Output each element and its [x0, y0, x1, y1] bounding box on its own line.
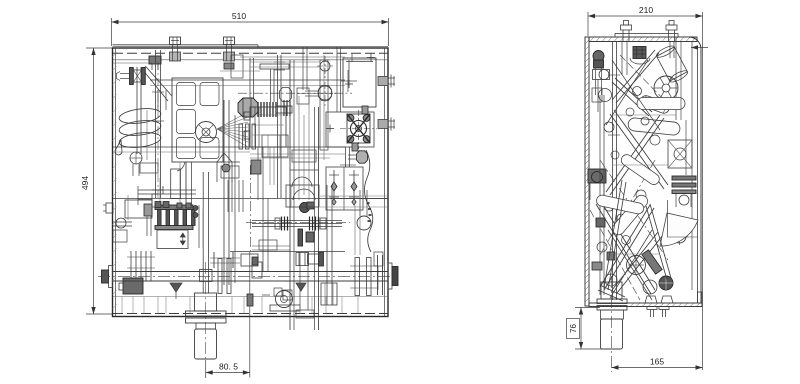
angled cylinder top-right: [655, 44, 689, 84]
tie horizontals right view: [613, 114, 677, 116]
dimension 80.5 bottom: [205, 360, 207, 378]
right comb dark: [672, 176, 696, 180]
right lower pivot dark: [659, 276, 673, 290]
left plate centerline: [157, 62, 159, 200]
big X lower B: [600, 205, 650, 287]
small circle: [633, 87, 642, 96]
shaft left end cap: [102, 270, 109, 283]
arm lower: [612, 232, 658, 290]
mid machinery cluster right of block: [249, 58, 251, 100]
horizontal bolt cluster dark washers: [283, 100, 285, 116]
svg-text:76: 76: [569, 324, 578, 333]
left rails lower: [113, 221, 132, 223]
top mounting plate side: [615, 34, 678, 38]
diagonal brace A: [615, 78, 652, 112]
vertical rods cluster left: [130, 251, 132, 281]
top dark nut left: [149, 56, 161, 64]
side cylinder block: [601, 310, 624, 319]
hex vertical dash: [324, 82, 326, 106]
terminal block: [155, 205, 193, 210]
spoked wheel: [654, 76, 678, 100]
arm to block: [145, 66, 172, 96]
vertical pair right of terminal: [198, 205, 200, 248]
vertical plate mid-left: [171, 169, 181, 199]
frame rail mid: [113, 146, 345, 148]
washer bars right lower: [377, 255, 379, 295]
cylinder centerline left view: [205, 262, 207, 362]
bottom rail ticks: [121, 297, 123, 314]
frame rail upper: [150, 79, 345, 81]
dimension 510 top: [111, 18, 113, 46]
mast pivot dark circle: [300, 203, 310, 213]
link bar 2: [628, 117, 681, 135]
side cylinder cap: [601, 282, 622, 299]
lower mid frame verticals: [262, 198, 264, 271]
diagonal dashed: [620, 55, 672, 108]
bottom flange plate: [589, 303, 702, 307]
corrugated washer stack: [257, 102, 259, 117]
rod washers mid: [213, 252, 215, 268]
vertical plate right of mast: [320, 60, 328, 150]
pivot ellipse bottom: [643, 280, 657, 294]
left tall plate: [155, 50, 157, 198]
right top leader: [691, 47, 708, 49]
dash centerline right: [297, 93, 336, 95]
svg-text:80. 5: 80. 5: [219, 362, 238, 372]
diagonal brace B: [612, 50, 655, 100]
left bracket: [593, 70, 610, 80]
dark nut top-center: [633, 47, 646, 59]
mast rails: [252, 220, 342, 222]
right columns under flange: [345, 147, 347, 167]
bolt below spring: [130, 152, 142, 164]
dark latch block: [123, 278, 143, 294]
extra links mid: [619, 152, 661, 186]
small dark block: [251, 160, 261, 174]
big dark hex bolt: [238, 98, 258, 117]
lower mid box: [286, 185, 319, 207]
top right rectangle: [343, 58, 376, 107]
left inner column: [599, 95, 601, 295]
svg-text:494: 494: [80, 176, 90, 190]
dashed diagonal mid: [600, 160, 668, 260]
main gear block: [172, 78, 223, 162]
panel bottom dashed seam: [113, 313, 388, 315]
bolt assembly right of mast: [308, 254, 321, 264]
right column of block: [223, 100, 225, 285]
svg-text:210: 210: [639, 5, 653, 15]
dark bolt top-left: [593, 51, 604, 62]
spring coil: [118, 106, 161, 149]
svg-text:165: 165: [650, 357, 664, 367]
clamp mid: [296, 253, 309, 266]
mast washer stack right: [309, 217, 311, 231]
inner frame right: [675, 37, 677, 120]
hex nut on axis: [280, 88, 292, 102]
svg-text:510: 510: [232, 11, 246, 21]
right column verticals: [685, 120, 687, 175]
shaft right end cap: [388, 263, 392, 289]
dimension 210: [587, 12, 589, 36]
left edge circle: [116, 218, 126, 228]
bolt shank: [276, 106, 292, 113]
frame rail lower: [113, 198, 388, 200]
long arm left: [604, 180, 622, 288]
dimension 165: [611, 371, 613, 373]
center mast: [289, 60, 291, 330]
extra diagonals upper: [612, 60, 660, 130]
cylinder cap: [195, 293, 217, 311]
T bracket: [260, 64, 289, 69]
column plates left-center: [277, 55, 279, 198]
small circle cross: [320, 61, 330, 71]
cylinder flange plates: [186, 311, 227, 316]
side cylinder flange plates: [597, 299, 627, 304]
pillar lower right: [321, 283, 337, 305]
lower channel block: [262, 135, 288, 157]
left tall plate lines: [157, 90, 159, 110]
rail above shaft: [230, 251, 345, 253]
upper-left spool hub: [130, 68, 134, 85]
dark nuts above terminal: [155, 202, 161, 208]
block right fan lines: [217, 112, 248, 129]
small box below shaft: [283, 290, 292, 300]
triangle mark below shaft: [170, 283, 182, 292]
double bolt box: [326, 167, 363, 210]
top wall: [589, 37, 697, 42]
hex bolt right area: [318, 86, 332, 100]
upper left wall ticks: [113, 52, 117, 57]
dark bits left of terminal: [144, 204, 152, 216]
panel top dashed seam: [113, 52, 388, 54]
side top bolt left: [621, 25, 632, 30]
small bits left column: [140, 163, 158, 173]
right wall: [689, 37, 701, 303]
mid diagonal long A: [614, 110, 668, 185]
bottom right lip: [698, 292, 703, 303]
rail left: [113, 62, 152, 64]
small dark bolt mid-left: [596, 218, 605, 227]
top mounting plate: [113, 44, 259, 46]
mast inner verticals: [298, 96, 300, 200]
coupling disks: [239, 124, 243, 149]
mast bolt assembly: [297, 88, 309, 104]
square flange plate: [326, 112, 374, 147]
top rail solid: [240, 56, 345, 58]
side cylinder centerline: [611, 276, 613, 372]
mast washer stack left: [281, 217, 283, 231]
dimension 494 left: [86, 47, 113, 49]
angled dark bracket: [642, 250, 662, 274]
side top bolt right: [666, 25, 677, 30]
mast dark bar: [298, 229, 303, 246]
column dark cap: [224, 63, 234, 69]
circle right lower: [673, 230, 686, 243]
big X lower A: [600, 200, 655, 290]
frame verticals right of mast: [326, 185, 328, 305]
right bracket mid: [668, 140, 692, 168]
top bolt right: [224, 37, 235, 45]
bracket arch right: [217, 153, 232, 182]
mast lower verticals: [299, 252, 301, 310]
coupler on centerline: [241, 254, 258, 266]
mast top columns: [302, 47, 304, 90]
gearmotor lower right: [276, 291, 293, 308]
shaft centerline: [98, 275, 397, 277]
arm to lower right: [646, 206, 667, 280]
bolt right edge lower: [378, 120, 388, 129]
linkage over cylinder: [600, 285, 625, 297]
stepped bracket left: [138, 189, 163, 191]
link stadium lower left: [595, 194, 644, 215]
inner frame left: [612, 42, 614, 301]
panel center vertical centerline: [249, 165, 251, 252]
axis centerline: [238, 92, 352, 94]
angled link cylinder: [639, 94, 671, 115]
hanging bolts below plate: [647, 307, 657, 310]
shaft spacer disks mid-left: [218, 259, 222, 294]
feet on bottom plate: [645, 296, 657, 303]
top right rect inner centerlines: [348, 60, 350, 86]
columns below block: [257, 147, 259, 200]
mid rails 154-158: [250, 153, 345, 155]
shaft spacer disks right: [355, 258, 360, 296]
dark cluster lower-left: [588, 169, 606, 183]
verticals left of top right rect: [336, 47, 338, 112]
hex nut dark right: [357, 151, 368, 163]
chain cable: [364, 150, 372, 252]
block foot column: [185, 162, 187, 205]
left mid plates above terminal: [152, 189, 196, 191]
extra circles joints: [626, 108, 634, 116]
left plate lower: [125, 200, 152, 218]
block knob: [196, 122, 217, 143]
dark rect lower left: [592, 262, 602, 270]
upper mid plate: [231, 55, 243, 78]
extra diagonals lower: [608, 230, 652, 300]
left wall hatch: [585, 40, 589, 44]
dark bits lower left centerline: [247, 294, 253, 306]
circle lower mid: [627, 256, 646, 275]
front view main panel: [113, 48, 389, 317]
circle right mid: [357, 216, 371, 230]
spring guide rod: [136, 67, 138, 154]
mid diagonal long B: [606, 115, 660, 192]
side cylinder body: [601, 319, 623, 349]
right area ties: [330, 198, 388, 200]
bolt right edge upper: [378, 77, 388, 86]
dimension 76: [575, 307, 600, 309]
columns right of terminal: [227, 180, 229, 212]
left edge bolt: [106, 203, 113, 213]
circle left lower: [604, 201, 614, 211]
left lower ties: [252, 245, 290, 247]
box below terminal block: [157, 230, 188, 249]
circle joint left lower: [597, 242, 607, 252]
main shaft: [113, 271, 389, 273]
link bar 1: [637, 98, 685, 110]
cylinder body: [196, 323, 216, 329]
top bolt left: [170, 37, 181, 45]
side view panels: [585, 37, 589, 306]
piston rod: [202, 172, 204, 293]
small assembly right lower: [374, 252, 383, 266]
right view arc sector: [660, 213, 698, 246]
center block left: [250, 107, 286, 147]
